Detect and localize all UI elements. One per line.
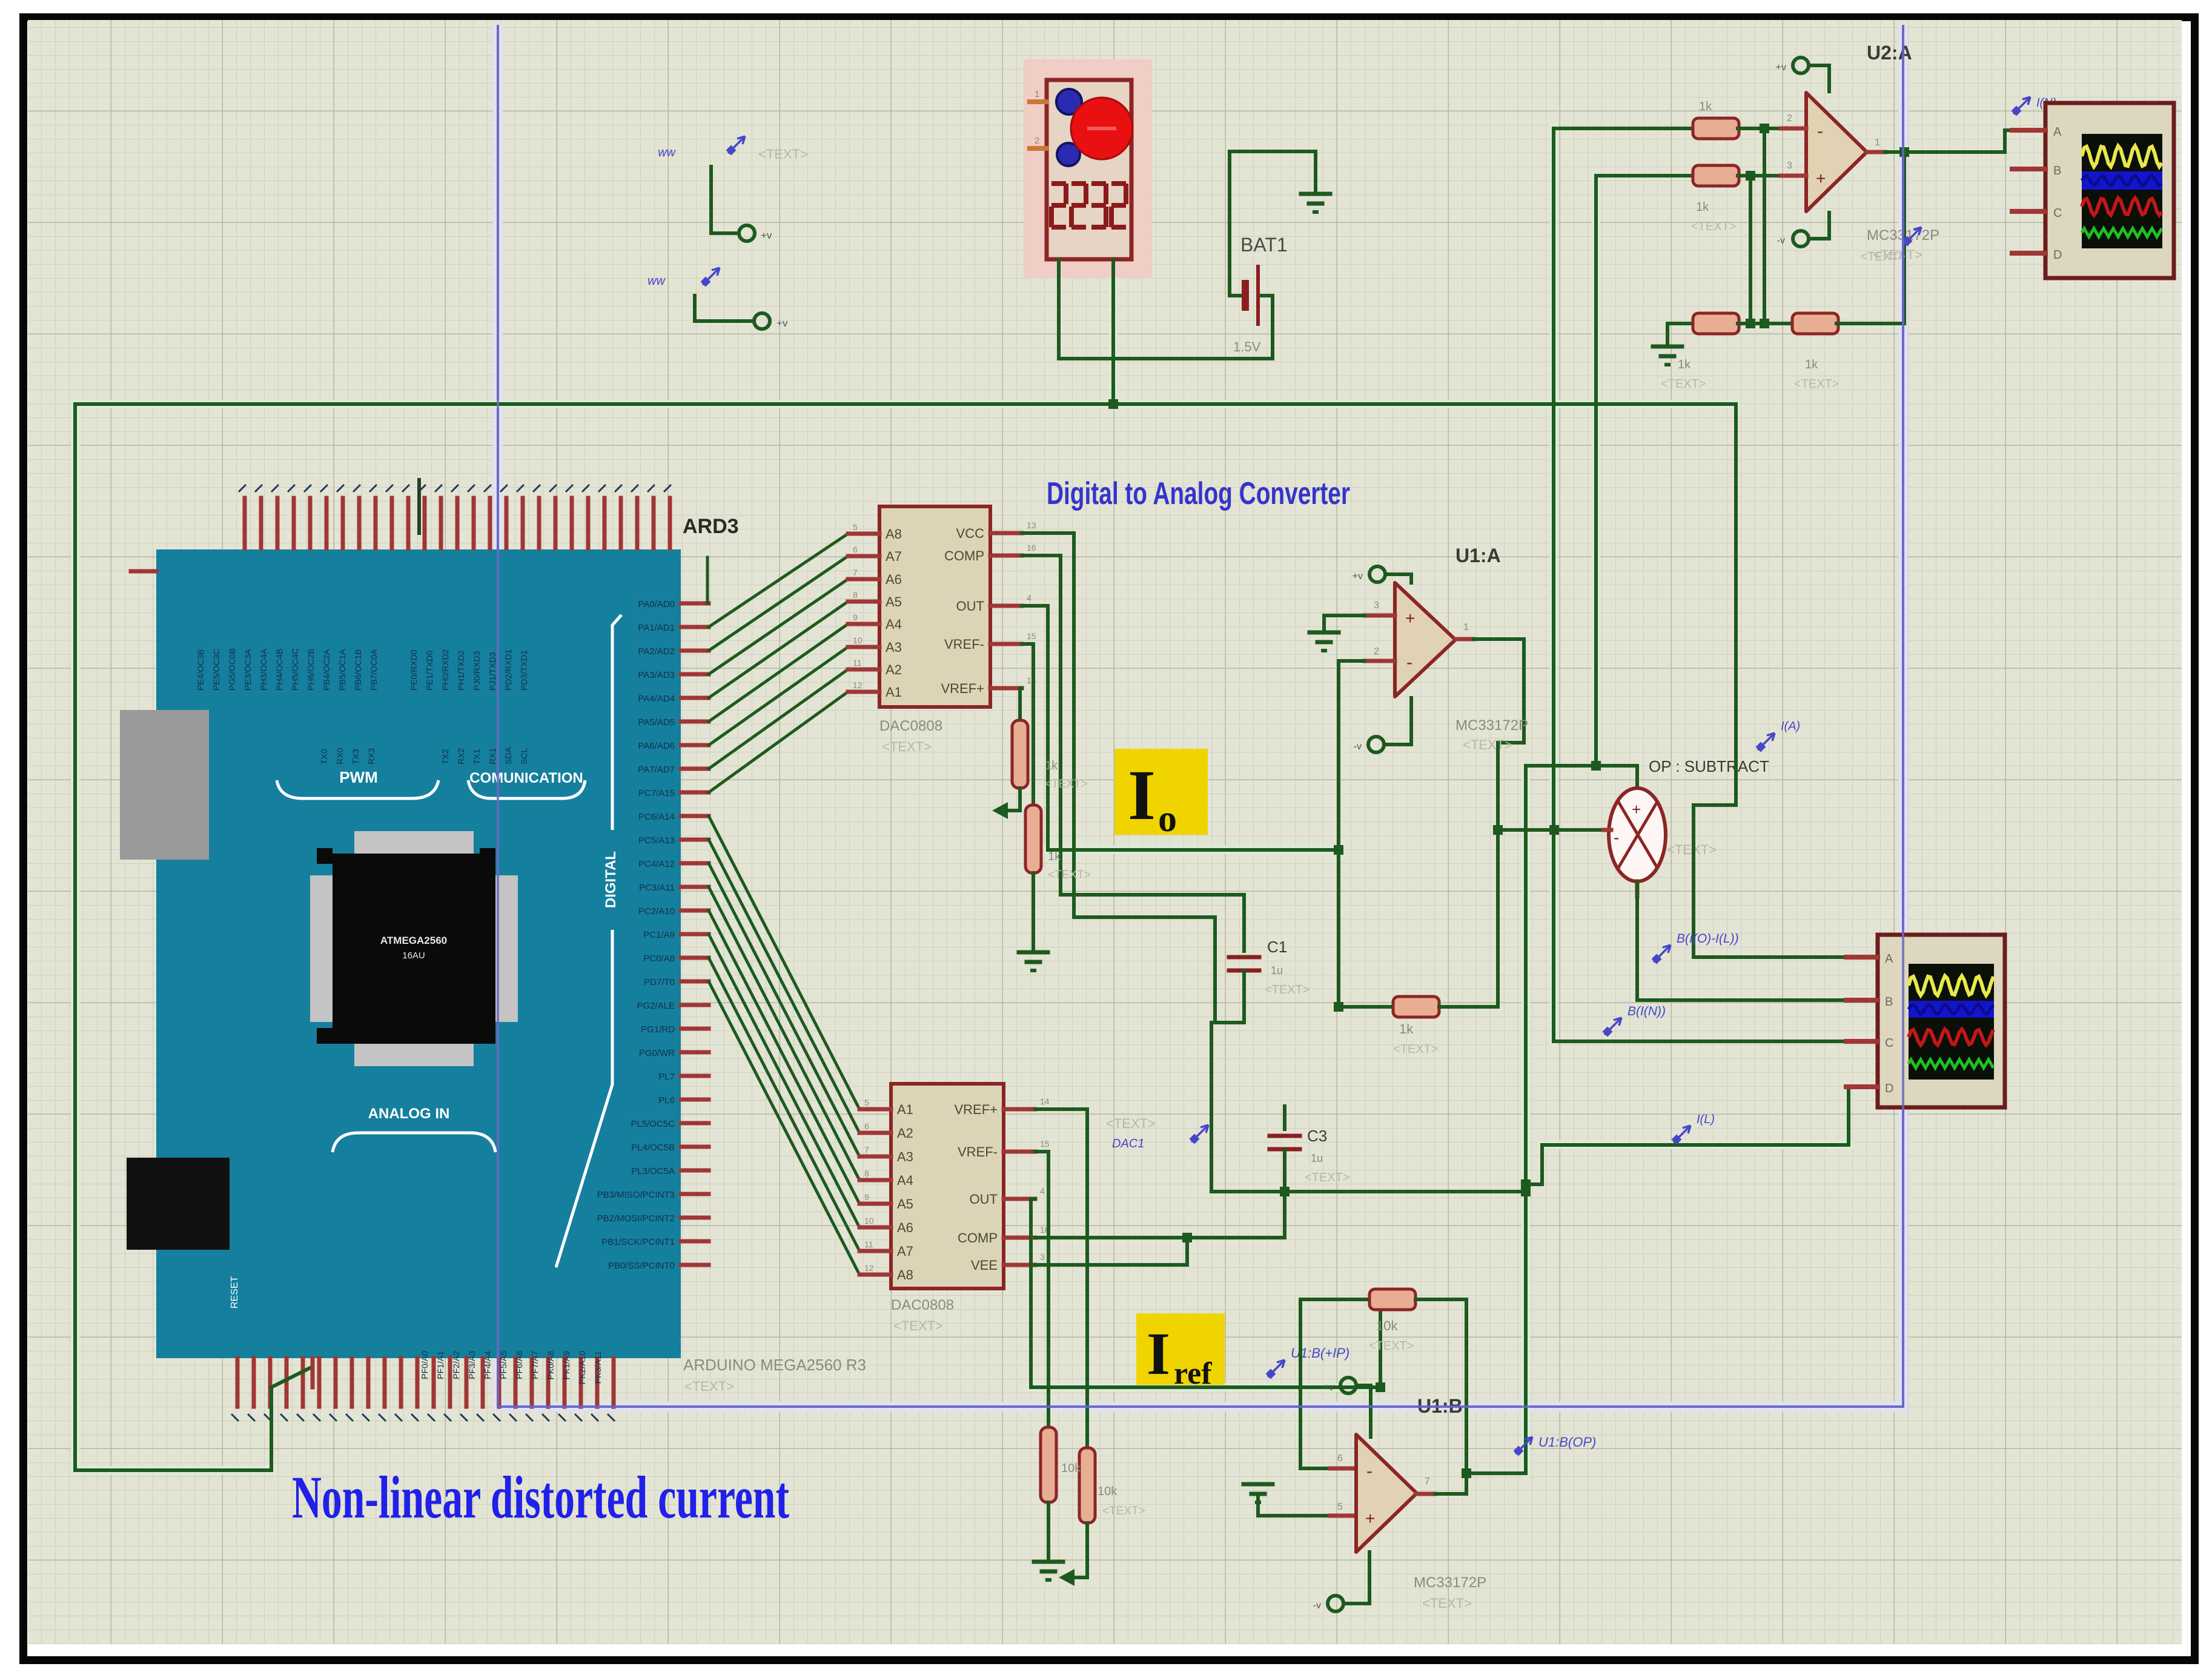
input arrow terminal xyxy=(992,802,1008,819)
center column U1B-out / subtract+ xyxy=(1524,766,1528,1473)
battery BAT1 xyxy=(1228,151,1231,296)
svg-text:<TEXT>: <TEXT> xyxy=(1305,1171,1349,1184)
svg-text:10: 10 xyxy=(853,635,863,645)
svg-text:11: 11 xyxy=(864,1239,873,1249)
svg-text:PF0/A0: PF0/A0 xyxy=(420,1351,429,1379)
svg-text:PG2/ALE: PG2/ALE xyxy=(637,1001,675,1011)
Arduino Mega 2560 board ARD3 xyxy=(156,549,681,1358)
board top pin header xyxy=(243,498,247,548)
resistor R2 xyxy=(1596,174,1693,177)
svg-text:PH3/OC4A: PH3/OC4A xyxy=(259,648,268,691)
svg-text:PWM: PWM xyxy=(339,768,378,786)
svg-text:<TEXT>: <TEXT> xyxy=(684,1379,734,1394)
U1:A +V power pin xyxy=(1369,566,1385,582)
svg-text:PB1/SCK/PCINT1: PB1/SCK/PCINT1 xyxy=(601,1237,675,1247)
ground G4 (R3) xyxy=(1653,345,1682,349)
resistor R6 10k U1:B feedback xyxy=(1369,1289,1416,1310)
oscilloscope 1 xyxy=(2045,103,2174,278)
MCU chip ATMEGA2560 xyxy=(354,831,474,854)
svg-text:COMUNICATION: COMUNICATION xyxy=(469,770,583,786)
U1:B feedback node xyxy=(1379,1299,1382,1387)
voltage probe P2 xyxy=(702,268,720,285)
op-amp U2:A MC33172P xyxy=(1806,93,1867,211)
svg-text:13: 13 xyxy=(1027,520,1036,530)
svg-text:PF5/A5: PF5/A5 xyxy=(498,1351,508,1379)
terminal/probe upper xyxy=(709,167,713,233)
capacitor C1 xyxy=(1242,895,1246,951)
svg-text:<TEXT>: <TEXT> xyxy=(1661,377,1706,391)
svg-text:PC2/A10: PC2/A10 xyxy=(638,906,675,917)
svg-text:MC33172P: MC33172P xyxy=(1414,1574,1486,1591)
svg-text:PL7: PL7 xyxy=(658,1072,675,1082)
scope1 waveforms xyxy=(2082,146,2162,167)
svg-text:A8: A8 xyxy=(897,1267,913,1282)
U2:A -V power pin xyxy=(1793,231,1809,247)
svg-text:PJ1/TXD3: PJ1/TXD3 xyxy=(488,652,497,691)
svg-text:1k: 1k xyxy=(1699,100,1712,113)
svg-text:ATMEGA2560: ATMEGA2560 xyxy=(380,935,447,946)
U1:B +V power pin xyxy=(1340,1378,1356,1393)
svg-text:<TEXT>: <TEXT> xyxy=(1667,842,1717,857)
svg-text:OUT: OUT xyxy=(956,599,984,614)
svg-text:10k: 10k xyxy=(1376,1318,1398,1333)
svg-text:1k: 1k xyxy=(1399,1021,1414,1037)
svg-text:RESET: RESET xyxy=(230,1276,240,1308)
svg-text:<TEXT>: <TEXT> xyxy=(1265,983,1310,997)
svg-text:+: + xyxy=(1632,800,1641,818)
svg-text:C1: C1 xyxy=(1267,938,1287,956)
svg-text:A: A xyxy=(2053,125,2062,139)
7-seg digits 2232 xyxy=(1051,181,1066,186)
svg-text:A5: A5 xyxy=(897,1196,913,1212)
svg-text:RX2: RX2 xyxy=(456,748,466,765)
svg-text:PC7/A15: PC7/A15 xyxy=(638,788,675,798)
resistor R2 1k xyxy=(1693,165,1739,186)
svg-text:A6: A6 xyxy=(897,1220,913,1235)
U1:A -V power pin xyxy=(1368,737,1384,752)
svg-text:1k: 1k xyxy=(1805,358,1818,371)
svg-text:OUT: OUT xyxy=(970,1192,998,1207)
svg-text:<TEXT>: <TEXT> xyxy=(758,147,808,162)
svg-text:PL6: PL6 xyxy=(658,1095,675,1106)
svg-text:PF1/A1: PF1/A1 xyxy=(435,1351,445,1379)
sheet border (blue) xyxy=(498,25,1903,1407)
svg-text:7: 7 xyxy=(853,568,858,577)
svg-text:4: 4 xyxy=(1027,593,1031,603)
Io label xyxy=(1114,749,1208,835)
svg-text:7: 7 xyxy=(1425,1476,1430,1487)
svg-text:8: 8 xyxy=(853,590,858,600)
U1:A plus input to ground xyxy=(1324,614,1365,617)
probe near DAC1/C1 net xyxy=(1191,1125,1208,1143)
svg-text:PE4/OC3B: PE4/OC3B xyxy=(196,649,205,691)
right pin header stubs xyxy=(681,602,709,606)
svg-text:PC6/A14: PC6/A14 xyxy=(638,812,675,822)
svg-text:5: 5 xyxy=(853,522,858,532)
svg-text:PH4/OC4B: PH4/OC4B xyxy=(274,649,284,691)
svg-text:-v: -v xyxy=(1354,741,1362,752)
op-amp U1:A MC33172P xyxy=(1395,583,1455,697)
svg-text:C: C xyxy=(2053,207,2062,220)
Iref label xyxy=(1136,1313,1225,1385)
svg-text:+v: +v xyxy=(1776,62,1786,73)
svg-text:ARDUINO MEGA2560 R3: ARDUINO MEGA2560 R3 xyxy=(683,1356,866,1374)
ground G5 (U1:B + input) xyxy=(1243,1482,1273,1487)
svg-text:VEE: VEE xyxy=(971,1258,998,1273)
probe U1:B(+IP) xyxy=(1267,1360,1285,1378)
svg-text:VREF+: VREF+ xyxy=(941,681,984,696)
svg-text:+v: +v xyxy=(761,230,772,241)
svg-text:A7: A7 xyxy=(897,1244,913,1259)
svg-text:PJ0/RXD3: PJ0/RXD3 xyxy=(472,651,482,691)
R1/R2 to opamp xyxy=(1738,127,1781,130)
svg-text:<TEXT>: <TEXT> xyxy=(1393,1043,1438,1056)
svg-text:PC0/A8: PC0/A8 xyxy=(643,954,675,964)
svg-text:PA2/AD2: PA2/AD2 xyxy=(638,646,675,657)
svg-text:ww: ww xyxy=(658,146,676,159)
svg-text:PK0/A8: PK0/A8 xyxy=(546,1351,555,1380)
border frame xyxy=(19,13,27,1664)
svg-text:Digital to Analog Converter: Digital to Analog Converter xyxy=(1047,476,1350,511)
svg-text:PB5/OC1A: PB5/OC1A xyxy=(337,649,347,691)
svg-text:A4: A4 xyxy=(897,1173,913,1188)
svg-text:COMP: COMP xyxy=(944,548,984,563)
svg-text:PG0/WR: PG0/WR xyxy=(639,1048,675,1058)
svg-text:A3: A3 xyxy=(897,1149,913,1164)
svg-text:RX1: RX1 xyxy=(488,748,497,765)
lower mid horizontal wire xyxy=(1211,1190,1526,1193)
svg-text:PA6/AD6: PA6/AD6 xyxy=(638,741,675,751)
terminal circle T1 xyxy=(739,225,755,241)
U2:A output to scope1 xyxy=(1885,150,2005,154)
svg-text:Non-linear distorted current: Non-linear distorted current xyxy=(292,1464,789,1531)
svg-text:16AU: 16AU xyxy=(402,950,425,961)
svg-text:SDA: SDA xyxy=(503,747,513,765)
DAC1 VCC net xyxy=(1022,531,1074,535)
wire to scope2 C xyxy=(1554,1040,1846,1043)
probe B(I(O)-I(L)) xyxy=(1653,945,1671,963)
svg-text:SCL: SCL xyxy=(519,748,529,765)
U1:B minus input xyxy=(1299,1299,1302,1468)
svg-text:U1:A: U1:A xyxy=(1455,545,1501,566)
svg-text:PA1/AD1: PA1/AD1 xyxy=(638,623,675,633)
svg-text:VREF-: VREF- xyxy=(958,1144,998,1159)
svg-text:PH5/OC4C: PH5/OC4C xyxy=(290,648,300,691)
voltage probe P1 xyxy=(727,136,745,154)
svg-text:15: 15 xyxy=(1040,1139,1050,1149)
tall pin at top xyxy=(417,480,421,533)
svg-text:DAC0808: DAC0808 xyxy=(879,718,942,734)
svg-text:1u: 1u xyxy=(1271,964,1283,977)
svg-text:PK3/A11: PK3/A11 xyxy=(593,1351,603,1384)
svg-text:<TEXT>: <TEXT> xyxy=(1691,220,1736,233)
svg-text:1k: 1k xyxy=(1048,850,1061,863)
svg-text:+: + xyxy=(1365,1509,1375,1528)
svg-text:+: + xyxy=(1816,169,1826,188)
svg-text:-: - xyxy=(1366,1461,1373,1481)
svg-text:-: - xyxy=(1406,652,1412,672)
svg-text:PD7/T0: PD7/T0 xyxy=(644,977,675,987)
wire U1A-out column to subtract + (from U2A R2 column) xyxy=(1526,764,1637,768)
svg-text:-v: -v xyxy=(1313,1600,1321,1611)
svg-text:BAT1: BAT1 xyxy=(1240,234,1288,256)
probe I(N) on U2:A output xyxy=(2013,97,2030,114)
DAC U3 DAC0808 (upper) xyxy=(879,506,990,707)
svg-text:PK2/A10: PK2/A10 xyxy=(577,1351,587,1384)
svg-text:PG5/OC0B: PG5/OC0B xyxy=(227,648,237,691)
svg-text:+: + xyxy=(1405,609,1415,628)
svg-text:B: B xyxy=(2053,164,2061,177)
wire left loop xyxy=(73,404,77,1470)
svg-text:A2: A2 xyxy=(897,1126,913,1141)
svg-text:PL4/OC5B: PL4/OC5B xyxy=(631,1143,675,1153)
svg-text:PC3/A11: PC3/A11 xyxy=(639,883,675,893)
svg-text:PD2/RXD1: PD2/RXD1 xyxy=(503,649,513,691)
resistor RV1 1k xyxy=(1012,720,1028,788)
svg-text:9: 9 xyxy=(864,1192,869,1202)
svg-text:ARD3: ARD3 xyxy=(683,515,739,538)
svg-text:+v: +v xyxy=(1353,571,1363,582)
usb connector xyxy=(120,710,209,860)
terminal circle T2 xyxy=(754,313,770,329)
board bottom pin header xyxy=(236,1358,240,1407)
DAC2 VEE net xyxy=(1035,1263,1187,1267)
svg-text:A: A xyxy=(1885,952,1893,966)
red lamp xyxy=(1071,98,1133,159)
svg-text:6: 6 xyxy=(853,545,858,554)
svg-text:MC33172P: MC33172P xyxy=(1455,717,1528,734)
svg-text:B(I(O)-I(L)): B(I(O)-I(L)) xyxy=(1677,932,1739,946)
U1:A minus input vertical xyxy=(1339,659,1365,663)
svg-text:A5: A5 xyxy=(886,594,902,609)
svg-text:I: I xyxy=(1147,1320,1170,1387)
svg-text:U2:A: U2:A xyxy=(1867,42,1912,64)
svg-text:A4: A4 xyxy=(886,617,902,632)
main horizontal wire xyxy=(75,402,1736,406)
svg-text:TX3: TX3 xyxy=(351,749,360,765)
svg-text:DAC1: DAC1 xyxy=(1112,1137,1144,1150)
svg-text:-: - xyxy=(1614,828,1619,847)
probe I(A) xyxy=(1757,733,1775,751)
svg-text:ANALOG IN: ANALOG IN xyxy=(368,1106,450,1122)
svg-text:A6: A6 xyxy=(886,572,902,587)
svg-text:TX0: TX0 xyxy=(319,749,329,765)
DAC U4 DAC0808 (lower) xyxy=(891,1084,1004,1289)
svg-text:15: 15 xyxy=(1027,631,1036,641)
oscilloscope 2 xyxy=(1878,935,2005,1107)
svg-text:PE5/OC3C: PE5/OC3C xyxy=(211,649,221,691)
svg-text:16: 16 xyxy=(1027,543,1036,552)
svg-text:PA0/AD0: PA0/AD0 xyxy=(638,599,675,609)
svg-text:B(I(N)): B(I(N)) xyxy=(1628,1004,1666,1018)
probe B(I(N)) xyxy=(1604,1018,1621,1035)
RV1 resistor xyxy=(1020,686,1022,690)
svg-text:PE3/OC3A: PE3/OC3A xyxy=(243,649,253,691)
svg-text:1: 1 xyxy=(1463,622,1469,632)
svg-text:A3: A3 xyxy=(886,640,902,655)
svg-text:+v: +v xyxy=(1323,1382,1334,1393)
svg-text:12: 12 xyxy=(864,1263,874,1273)
svg-text:PF6/A6: PF6/A6 xyxy=(514,1351,524,1379)
svg-text:COMP: COMP xyxy=(958,1230,998,1245)
sheet border overlay xyxy=(498,25,1903,1407)
svg-text:9: 9 xyxy=(853,612,858,622)
U1:A feedback resistor 1k xyxy=(1339,1005,1393,1009)
resistor RV2 1k xyxy=(1025,805,1041,873)
svg-text:PB6/OC1B: PB6/OC1B xyxy=(353,649,363,691)
ground G6 (below RV3) xyxy=(1034,1560,1063,1564)
wire to subtractor minus xyxy=(1498,828,1604,832)
svg-text:1k: 1k xyxy=(1696,201,1709,214)
svg-text:1.5V: 1.5V xyxy=(1233,339,1261,354)
resistor R3 1k xyxy=(1693,313,1739,334)
svg-text:1k: 1k xyxy=(1678,358,1691,371)
ground G2 (below RV2) xyxy=(1019,950,1048,955)
svg-text:3: 3 xyxy=(1374,600,1379,611)
subtractor OP:SUBTRACT xyxy=(1609,788,1666,881)
svg-text:<TEXT>: <TEXT> xyxy=(1794,377,1839,391)
svg-text:PL5/OC5C: PL5/OC5C xyxy=(631,1119,675,1129)
svg-text:+v: +v xyxy=(777,317,788,329)
svg-text:A2: A2 xyxy=(886,662,902,677)
svg-text:7: 7 xyxy=(864,1145,869,1155)
svg-text:<TEXT>: <TEXT> xyxy=(1048,869,1091,881)
U2:A +V power pin xyxy=(1793,58,1809,73)
ground G1 (battery) xyxy=(1301,192,1330,196)
U1:A output net xyxy=(1474,637,1524,641)
svg-text:4: 4 xyxy=(1040,1186,1045,1196)
svg-text:11: 11 xyxy=(853,658,862,668)
svg-text:PE0/RXD0: PE0/RXD0 xyxy=(409,649,419,691)
svg-text:PC1/A9: PC1/A9 xyxy=(643,930,675,940)
svg-text:A8: A8 xyxy=(886,526,902,542)
DAC1 VREF- net xyxy=(1022,642,1033,646)
U1:B output xyxy=(1417,1492,1435,1496)
svg-text:PA4/AD4: PA4/AD4 xyxy=(638,694,675,704)
U1:B -V power pin xyxy=(1328,1596,1343,1611)
U1:A input stubs xyxy=(1365,614,1395,618)
svg-text:PE1/TXD0: PE1/TXD0 xyxy=(425,651,434,691)
svg-text:PH0/RXD2: PH0/RXD2 xyxy=(440,649,450,691)
svg-text:VREF+: VREF+ xyxy=(954,1102,998,1117)
svg-text:2: 2 xyxy=(1035,136,1039,146)
svg-text:1u: 1u xyxy=(1311,1152,1323,1164)
resistor R4 1k xyxy=(1792,313,1838,334)
svg-text:3: 3 xyxy=(1040,1252,1045,1262)
svg-text:<TEXT>: <TEXT> xyxy=(882,739,932,754)
svg-text:PF4/A4: PF4/A4 xyxy=(483,1351,492,1379)
svg-text:12: 12 xyxy=(853,680,863,690)
pins left xyxy=(1030,99,1047,104)
svg-text:PB7/OC0A: PB7/OC0A xyxy=(369,649,379,691)
op-amp U1:B MC33172P xyxy=(1356,1435,1417,1552)
svg-text:PB3/MISO/PCINT3: PB3/MISO/PCINT3 xyxy=(597,1190,675,1200)
DAC2 OUT net (Iref wire) xyxy=(1031,1197,1035,1201)
display bottom pins xyxy=(1057,259,1061,359)
svg-text:<TEXT>: <TEXT> xyxy=(1106,1116,1156,1131)
svg-text:VREF-: VREF- xyxy=(944,637,984,652)
resistor RV4 10k xyxy=(1079,1448,1095,1523)
svg-text:U1:B(OP): U1:B(OP) xyxy=(1538,1435,1596,1450)
probe I(L) xyxy=(1673,1126,1690,1143)
svg-text:TX2: TX2 xyxy=(440,749,450,765)
svg-text:6: 6 xyxy=(864,1121,869,1131)
svg-text:<TEXT>: <TEXT> xyxy=(1422,1596,1472,1611)
svg-text:6: 6 xyxy=(1337,1453,1343,1464)
svg-text:I(A): I(A) xyxy=(1781,720,1800,733)
subtract output down to scope2 B xyxy=(1635,881,1640,897)
svg-text:A1: A1 xyxy=(897,1102,913,1117)
svg-text:B: B xyxy=(1885,995,1893,1009)
svg-text:PD3/TXD1: PD3/TXD1 xyxy=(519,650,529,691)
svg-text:3: 3 xyxy=(1787,161,1792,171)
svg-text:1: 1 xyxy=(1035,89,1039,99)
svg-text:8: 8 xyxy=(864,1169,869,1178)
svg-text:PF7/A7: PF7/A7 xyxy=(530,1351,540,1379)
svg-text:PC4/A12: PC4/A12 xyxy=(638,859,675,869)
svg-text:PC5/A13: PC5/A13 xyxy=(638,835,675,846)
resistor R5 1k U1:A feedback xyxy=(1393,997,1439,1017)
svg-text:C3: C3 xyxy=(1307,1127,1327,1145)
svg-text:2: 2 xyxy=(1374,646,1379,657)
svg-text:PF2/A2: PF2/A2 xyxy=(451,1351,461,1379)
svg-text:RX3: RX3 xyxy=(366,748,376,765)
svg-text:PA5/AD5: PA5/AD5 xyxy=(638,717,675,728)
svg-text:D: D xyxy=(2053,248,2062,262)
blue terminals xyxy=(1056,89,1082,114)
svg-text:PL3/OC5A: PL3/OC5A xyxy=(631,1166,675,1176)
7-seg display / meter component xyxy=(1024,59,1152,277)
probe U1:B(OP) xyxy=(1515,1437,1532,1454)
resistor R1 xyxy=(1554,127,1693,130)
svg-text:C: C xyxy=(1885,1037,1893,1050)
svg-text:PB4/OC2A: PB4/OC2A xyxy=(322,649,331,691)
svg-text:OP : SUBTRACT: OP : SUBTRACT xyxy=(1649,757,1769,775)
svg-text:I(L): I(L) xyxy=(1697,1113,1715,1126)
svg-text:1: 1 xyxy=(1875,138,1880,148)
svg-text:DIGITAL: DIGITAL xyxy=(603,851,619,908)
wire to scope2 D xyxy=(1542,1143,1849,1147)
svg-text:ww: ww xyxy=(647,274,666,288)
resistor R1 1k xyxy=(1693,118,1739,139)
svg-text:14: 14 xyxy=(1040,1096,1050,1106)
svg-text:PF3/A3: PF3/A3 xyxy=(467,1351,477,1379)
svg-text:10k: 10k xyxy=(1061,1462,1081,1475)
svg-text:PB2/MOSI/PCINT2: PB2/MOSI/PCINT2 xyxy=(597,1213,675,1224)
svg-text:<TEXT>: <TEXT> xyxy=(1045,778,1088,791)
probe on feedback column xyxy=(1904,227,1921,245)
svg-text:TX1: TX1 xyxy=(472,749,482,765)
svg-text:-v: -v xyxy=(1777,236,1785,246)
svg-text:PH1/TXD2: PH1/TXD2 xyxy=(456,650,466,691)
svg-text:<TEXT>: <TEXT> xyxy=(1463,737,1512,752)
resistor RV3 10k xyxy=(1041,1427,1056,1502)
svg-text:1k: 1k xyxy=(1045,759,1058,772)
svg-text:PA7/AD7: PA7/AD7 xyxy=(638,765,675,775)
svg-text:D: D xyxy=(1885,1082,1893,1095)
board left pin xyxy=(131,569,156,574)
svg-text:RX0: RX0 xyxy=(335,748,345,765)
DAC2 VREF+ net to RV4 xyxy=(1035,1107,1087,1111)
ground G3 (U1:A + input) xyxy=(1310,631,1339,635)
svg-text:I: I xyxy=(1128,755,1156,835)
svg-text:DAC0808: DAC0808 xyxy=(891,1297,954,1313)
svg-text:A7: A7 xyxy=(886,549,902,564)
terminal/probe lower xyxy=(693,296,697,321)
svg-text:10k: 10k xyxy=(1098,1485,1118,1498)
power jack xyxy=(127,1158,230,1250)
svg-text:5: 5 xyxy=(1337,1502,1343,1512)
